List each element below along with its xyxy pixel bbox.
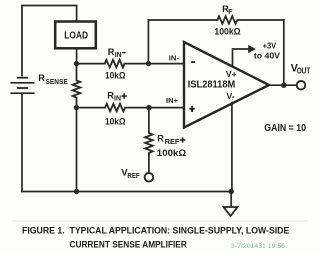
resistor R_IN- zigzag — [105, 60, 125, 68]
junction dot bottom rail right — [229, 189, 234, 194]
wire IN+ row right segment to op-amp — [125, 107, 184, 109]
svg-text:FIGURE 1. TYPICAL APPLICATION: FIGURE 1. TYPICAL APPLICATION: SINGLE-SU… — [22, 226, 290, 237]
V+ supply arrow — [233, 45, 256, 67]
wire op-amp output to V_OUT — [269, 84, 297, 86]
wire feedback drop to output node — [283, 20, 285, 85]
svg-text:GAIN = 10: GAIN = 10 — [264, 123, 306, 134]
terminal V_OUT circle — [297, 81, 306, 90]
svg-text:IN-: IN- — [169, 53, 180, 62]
svg-text:100kΩ: 100kΩ — [214, 26, 240, 37]
svg-text:ISL28118M: ISL28118M — [188, 80, 235, 91]
wire V- pin to bottom rail — [231, 103, 233, 192]
svg-text:R: R — [157, 134, 164, 144]
svg-text:3-7/201431 19:56: 3-7/201431 19:56 — [231, 243, 286, 250]
wire IN- row left segment — [77, 63, 105, 65]
wire ground stub — [230, 192, 232, 207]
resistor R_SENSE zigzag — [73, 64, 81, 108]
node A junction dot — [74, 61, 79, 66]
junction dot output node — [281, 83, 286, 88]
svg-text:10kΩ: 10kΩ — [105, 70, 126, 81]
label minus input — [191, 61, 195, 63]
svg-text:10kΩ: 10kΩ — [105, 116, 126, 127]
battery V_supply — [10, 78, 34, 94]
resistor R_F zigzag — [217, 16, 237, 24]
svg-text:F: F — [228, 9, 233, 16]
wire LOAD bottom to node A — [76, 50, 78, 64]
wire battery negative to bottom rail — [21, 94, 23, 192]
wire IN- row right segment to op-amp — [125, 63, 185, 65]
node D junction dot (R_REF+ tap) — [146, 105, 151, 110]
svg-text:IN: IN — [115, 52, 122, 59]
wire bottom rail — [22, 191, 231, 193]
svg-text:to 40V: to 40V — [254, 51, 281, 60]
wire R_SENSE bottom to bottom rail — [76, 108, 78, 192]
wire feedback riser from node C — [147, 20, 149, 64]
load box LOAD — [55, 22, 96, 49]
svg-text:+3V: +3V — [263, 41, 277, 50]
svg-text:OUT: OUT — [297, 67, 310, 76]
wire feedback top left segment — [148, 19, 217, 21]
svg-text:R: R — [38, 73, 45, 83]
scan artifact band — [12, 220, 308, 222]
svg-text:V-: V- — [227, 91, 235, 101]
resistor R_REF+ zigzag — [145, 133, 153, 155]
ground symbol — [224, 207, 238, 216]
junction dot bottom rail left — [74, 189, 79, 194]
svg-text:CURRENT SENSE AMPLIFIER: CURRENT SENSE AMPLIFIER — [70, 239, 187, 250]
svg-text:V+: V+ — [226, 69, 237, 79]
op-amp U1 triangle — [184, 42, 269, 128]
svg-text:SENSE: SENSE — [46, 77, 68, 86]
terminal V_REF circle — [145, 173, 154, 182]
svg-text:100kΩ: 100kΩ — [157, 148, 187, 159]
wire R_REF+ bottom segment to V_REF terminal — [148, 155, 150, 173]
resistor R_IN+ zigzag — [105, 104, 125, 112]
wire top rail battery to LOAD — [22, 6, 77, 76]
svg-text:LOAD: LOAD — [64, 31, 88, 42]
svg-text:REF: REF — [165, 138, 180, 146]
svg-text:IN+: IN+ — [166, 96, 179, 105]
wire R_REF+ top segment from node D — [148, 108, 150, 133]
node B junction dot — [74, 105, 79, 110]
wire feedback top right segment — [237, 19, 283, 21]
svg-text:REF: REF — [127, 173, 140, 180]
node C junction dot (feedback tap) — [146, 61, 151, 66]
svg-text:IN: IN — [114, 95, 121, 102]
label plus input — [189, 106, 194, 112]
wire IN+ row left segment — [77, 107, 106, 109]
